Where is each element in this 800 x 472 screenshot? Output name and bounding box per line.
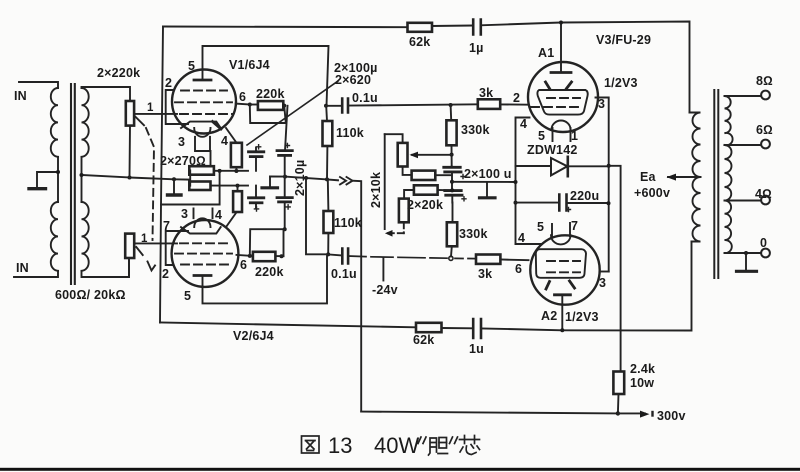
wire 330k upper stubs <box>451 105 452 167</box>
junction A2 plate / bottom rail <box>560 328 564 332</box>
wire tap 8ohm <box>725 95 762 97</box>
junction bias R2 top <box>236 184 240 188</box>
capacitor 0.1u lower <box>342 249 348 264</box>
tube V2 cathode <box>181 227 221 233</box>
wire 20k vertical bottom dashes <box>403 222 405 233</box>
caption close quote <box>450 437 458 444</box>
resistor 3k upper <box>478 99 500 109</box>
junction left rail / bias mid <box>514 180 518 184</box>
junction +300v node <box>616 411 620 415</box>
wire A1 pin4 to left rail <box>516 118 530 245</box>
svg-text:330k: 330k <box>461 123 490 137</box>
svg-text:40W: 40W <box>374 433 419 458</box>
svg-text:2.4k: 2.4k <box>630 362 655 376</box>
capacitor 2x100u/2x620 C-c upper <box>277 149 292 152</box>
resistor 2.4k 10w (vertical) <box>613 372 624 395</box>
tube V1 plate bar pin5 <box>194 79 211 82</box>
wire bias V1 bottom stub <box>235 167 237 171</box>
resistor 3k lower <box>476 255 500 264</box>
tube A2 cathode dome <box>551 235 571 244</box>
tube A1 grid boat <box>537 90 587 115</box>
svg-text:110k: 110k <box>336 126 364 140</box>
tube A2 boat dashes <box>547 260 580 262</box>
svg-text:600Ω/ 20kΩ: 600Ω/ 20kΩ <box>55 288 126 302</box>
svg-text:1/2V3: 1/2V3 <box>565 310 599 324</box>
junction 220k upper left <box>248 103 252 107</box>
svg-text:6: 6 <box>515 262 522 276</box>
wire 220k upper left stub <box>250 104 258 106</box>
ground input primary centre <box>37 172 58 187</box>
transformer T2 secondary section 1 <box>725 96 733 145</box>
wire splitter input <box>270 177 338 181</box>
annotation diagonal 2x620 pointer <box>247 81 338 145</box>
wire pot R1 wiper to V1 grid <box>134 113 177 115</box>
junction plate node V1 <box>324 104 328 108</box>
resistor 2x10k (vertical) <box>398 143 408 167</box>
wire 110k lower stubs <box>327 179 330 254</box>
ground T (bias mid) <box>486 182 488 197</box>
capacitor 220u <box>516 202 609 204</box>
tube A1 plate bar <box>551 71 571 74</box>
resistor 110k upper (vertical) <box>323 121 333 146</box>
wire tap 0 <box>725 252 762 254</box>
svg-text:4: 4 <box>518 231 525 245</box>
capacitor 2x10u C-a (V1 cathode) <box>249 150 264 153</box>
junction left rail / 220u <box>514 201 518 205</box>
wire 0.1u lower to 3k lower (broken scan) <box>348 256 476 259</box>
junction 20k-2 right <box>450 188 454 192</box>
wire secondary centre segment <box>81 157 83 202</box>
wire screen U-loop lower <box>250 229 285 256</box>
zener ZDW142 <box>516 165 609 167</box>
caption open quote <box>418 437 426 444</box>
tube V2 cathode dome <box>194 218 210 227</box>
wire plate-follower vertical (x306) <box>306 178 328 254</box>
svg-text:220k: 220k <box>256 87 285 101</box>
wire A2 pin4 to left rail <box>516 243 542 245</box>
svg-text:1: 1 <box>147 102 154 114</box>
svg-text:330k: 330k <box>459 227 488 241</box>
tube A1 beam tabs <box>546 82 572 89</box>
tube V1 cathode <box>181 122 221 128</box>
svg-text:5: 5 <box>538 129 545 143</box>
svg-text:3: 3 <box>178 135 185 149</box>
tube V2 pin2 bracket <box>166 231 188 265</box>
junction cathode rail ground tap <box>172 177 176 181</box>
svg-text:1: 1 <box>571 129 578 143</box>
resistor 2x20k first (horizontal) <box>412 171 436 180</box>
wire 20k-2 left to 20k vertical <box>404 190 414 199</box>
wire A2 pin3 to screen rail <box>600 271 609 273</box>
ground T small (between caps) <box>269 177 271 188</box>
tube V2 grid dashes <box>180 242 232 244</box>
svg-text:220u: 220u <box>570 189 599 203</box>
wire V2 pin5 to plate node <box>203 256 328 303</box>
gang arrowhead into R2 <box>148 262 156 271</box>
transformer T1 primary winding lower <box>51 202 58 271</box>
wire pot R2 bottom <box>128 258 130 277</box>
wire cathode node V1 <box>214 170 248 172</box>
wire 3k lower to A2 grid <box>500 259 528 262</box>
wire 2x10k bottom to 20k-1 <box>403 167 412 175</box>
junction pot lower top <box>128 176 132 180</box>
junction plate-follower vertical <box>304 176 308 180</box>
gang arrowhead into 2x10k rail <box>385 230 393 237</box>
svg-text:4: 4 <box>215 208 222 222</box>
junction screen rail / 220u <box>607 201 611 205</box>
resistor 330k lower (vertical) <box>447 222 457 246</box>
svg-text:A1: A1 <box>538 46 554 60</box>
wire common rail y177 <box>82 175 191 180</box>
svg-text:IN: IN <box>14 89 27 103</box>
wire 220k lower left stub <box>250 255 253 257</box>
svg-text:110k: 110k <box>334 216 362 230</box>
wire bottom feedback run <box>160 242 692 331</box>
junction A1 plate / top rail <box>559 21 563 25</box>
wire chevron to splitter drop <box>353 181 362 412</box>
wire 270s left tie <box>189 170 191 185</box>
svg-text:220k: 220k <box>255 265 284 279</box>
wire pot R2 wiper to V2 grid <box>135 242 177 244</box>
transformer T2 secondary section 2 <box>725 145 732 201</box>
ground 0 tap <box>745 253 747 271</box>
wire 2.4k bottom stub <box>617 394 620 413</box>
junction 330k bottom / wiper <box>450 153 454 157</box>
wire A2 plate to bottom rail <box>561 295 563 331</box>
wire bias mid rail to pin4 rail <box>452 181 516 183</box>
svg-text:2×100 u: 2×100 u <box>464 167 512 181</box>
wire primary centre segment <box>57 157 59 202</box>
wire zener node to 2.4k drop <box>609 166 621 372</box>
svg-text:3: 3 <box>599 276 606 290</box>
resistor 2x20k second (horizontal) <box>414 185 438 194</box>
wire bias V2 top stub <box>237 186 239 192</box>
resistor 62k upper <box>408 23 433 32</box>
svg-text:10w: 10w <box>630 376 654 390</box>
junction cathode feedback tie <box>218 169 222 173</box>
svg-text:3: 3 <box>181 207 188 221</box>
svg-text:2×620: 2×620 <box>335 73 371 87</box>
resistor 270 upper <box>189 166 214 175</box>
svg-text:5: 5 <box>537 220 544 234</box>
tube V1 pin2 bracket <box>166 90 188 124</box>
resistor bias V1 (vertical) <box>231 143 242 167</box>
svg-text:5: 5 <box>184 289 191 303</box>
tube V1 base leads pins 3,4 <box>195 137 211 166</box>
transformer T1 secondary winding upper <box>82 88 89 157</box>
capacitor 0.1u upper <box>342 99 348 113</box>
wire 110k upper stubs <box>326 106 327 180</box>
wire V2 pin6 exit <box>237 254 250 257</box>
svg-text:6Ω: 6Ω <box>756 123 773 137</box>
svg-text:0.1u: 0.1u <box>352 91 378 105</box>
tube V1 6J4 envelope <box>172 70 236 134</box>
caption character xin (core) <box>460 436 480 455</box>
wire 2x10k top feed <box>385 134 403 143</box>
gang dashed link R1-R2 <box>146 128 154 240</box>
svg-text:3k: 3k <box>478 267 492 281</box>
plus mark 220u <box>567 208 571 212</box>
dot before 300v <box>651 412 653 416</box>
wire V1 pin5 to plate node <box>203 46 329 106</box>
tube V2 pin4 lead to bias resistor <box>226 212 236 227</box>
wire Ea centre tap arrow <box>668 176 696 178</box>
plus mark C-b <box>254 207 258 211</box>
svg-text:A2: A2 <box>541 309 557 323</box>
svg-text:6: 6 <box>239 90 246 104</box>
plus marks 2x100u <box>461 175 466 201</box>
tube V1 beam tab <box>213 122 222 130</box>
junction secondary centre <box>80 173 84 177</box>
svg-text:IN: IN <box>16 261 29 275</box>
wire secondary bottom to pot R2 <box>82 258 130 277</box>
ground cathode rail <box>173 179 175 194</box>
junction 110k bottom <box>325 177 329 181</box>
plus mark C-d <box>286 205 290 209</box>
svg-text:62k: 62k <box>409 35 430 49</box>
wire A1 pin3 to screen rail <box>596 98 609 272</box>
junction plate node V2 <box>326 252 330 256</box>
tube A1 envelope <box>528 62 598 132</box>
tube V1 grid dashes <box>181 90 227 92</box>
wire top feedback run <box>163 22 690 113</box>
wire 20k-2 right to cap node <box>438 189 453 191</box>
tube V2 plate bar pin5 <box>194 274 211 277</box>
capacitor 2x100u lower plates <box>445 189 461 192</box>
capacitor 2x100u/2x620 C-d lower <box>277 196 292 199</box>
svg-text:2: 2 <box>162 267 169 281</box>
wire feedback rail left vertical <box>160 27 163 323</box>
transformer T2 primary lower <box>692 177 701 242</box>
wire 0.1u to 3k upper <box>348 104 478 105</box>
svg-text:13: 13 <box>328 433 352 458</box>
svg-text:3k: 3k <box>479 86 493 100</box>
wire 3k upper to A1 grid <box>500 103 528 105</box>
resistor 62k lower <box>416 323 442 332</box>
svg-text:Ea: Ea <box>640 170 657 184</box>
tube A2 envelope <box>530 235 599 304</box>
svg-text:1µ: 1µ <box>469 41 484 55</box>
junction cap chain top <box>283 175 287 179</box>
coupling chevrons <box>340 177 353 184</box>
wire tap 4ohm <box>725 200 762 202</box>
bottom rule <box>0 468 800 471</box>
caption character tu (figure) <box>302 436 320 453</box>
terminal 8ohm <box>761 91 770 100</box>
svg-text:ZDW142: ZDW142 <box>527 143 578 157</box>
wire V1 pin6 exit <box>236 103 250 106</box>
svg-text:4Ω: 4Ω <box>755 187 772 201</box>
svg-text:8Ω: 8Ω <box>756 74 773 88</box>
svg-text:6: 6 <box>240 258 247 272</box>
junction C-d bottom <box>283 227 287 231</box>
resistor 220k lower <box>253 252 276 261</box>
transformer T1 primary winding upper <box>51 88 58 157</box>
junction open circle (grid return) <box>449 256 453 260</box>
terminal 4ohm <box>761 196 770 205</box>
tube A1 boat dashes <box>547 97 580 99</box>
tube A2 pins 5,7 leads <box>552 223 570 237</box>
wire lower input lead <box>14 271 58 277</box>
capacitor 1u upper <box>473 20 481 35</box>
plus mark C-c <box>285 143 289 147</box>
svg-text:5: 5 <box>188 59 195 73</box>
supply stub -24v <box>382 258 384 281</box>
svg-text:7: 7 <box>163 219 170 233</box>
resistor 110k lower (vertical) <box>324 211 334 233</box>
capacitor 2x100u upper plates <box>444 166 460 169</box>
svg-text:0: 0 <box>760 236 767 250</box>
capacitor 2x10u C-b (V2 cathode) <box>249 196 264 199</box>
wiper arrow 2x10k <box>412 154 452 156</box>
tube A2 plate bar <box>555 293 571 296</box>
transformer T2 core <box>714 90 718 278</box>
junction primary centre tap <box>56 170 60 174</box>
wire splitter bottom run to +300v node <box>361 412 618 414</box>
wire 220k lower right stub <box>275 255 283 257</box>
wire 2x100u stack stubs <box>451 167 454 223</box>
terminal 0 <box>761 249 770 258</box>
caption character dan (gall) <box>429 438 448 456</box>
wire +300v arrow <box>618 412 645 414</box>
tube A1 cathode dome <box>552 121 571 130</box>
svg-text:4: 4 <box>520 117 527 131</box>
wire secondary top to pot R1 <box>82 87 131 101</box>
wire 330k lower bottom stub <box>450 246 453 256</box>
tube V2 top leads pins 3,4 <box>194 209 213 219</box>
wire upper input lead <box>19 82 58 88</box>
resistor 270 lower <box>189 182 210 191</box>
transformer T1 secondary winding lower <box>82 202 89 271</box>
tube A2 grid boat <box>536 249 586 278</box>
terminal 6ohm <box>761 140 770 149</box>
transformer T2 secondary section 3 <box>725 201 732 254</box>
wire feedback tie to rail <box>161 171 220 205</box>
svg-text:1: 1 <box>141 233 148 245</box>
svg-text:2×220k: 2×220k <box>97 66 140 80</box>
wire plate node V2 to 0.1u <box>328 254 342 255</box>
svg-text:V2/6J4: V2/6J4 <box>233 329 274 343</box>
svg-text:+600v: +600v <box>634 186 670 200</box>
junction 220k lower right <box>280 254 284 258</box>
wiper arrow R1 <box>135 116 144 125</box>
plus mark C-a <box>257 145 261 149</box>
tube V1 cathode dome <box>194 128 210 137</box>
svg-text:2×20k: 2×20k <box>407 198 443 212</box>
junction 330k top <box>449 103 453 107</box>
junction 220k upper right <box>282 104 286 108</box>
resistor 220k upper <box>258 101 283 110</box>
junction bias R bottom <box>234 169 238 173</box>
resistor 330k upper (vertical) <box>446 120 456 145</box>
junction 2x100u midpoint <box>450 180 454 184</box>
wire screen U-loop upper <box>250 105 286 124</box>
svg-text:62k: 62k <box>413 333 434 347</box>
resistor 2x20k (vertical) <box>399 199 409 223</box>
svg-text:300v: 300v <box>657 409 686 423</box>
junction 220k lower left <box>248 254 252 258</box>
svg-text:3: 3 <box>598 97 605 111</box>
tube V2 6J4 envelope <box>172 220 239 287</box>
transformer T2 primary upper <box>690 113 701 178</box>
wire pot R1 bottom to rail <box>129 126 132 178</box>
wire 20k-1 right to cap node <box>435 174 452 176</box>
svg-text:0.1u: 0.1u <box>331 267 357 281</box>
svg-text:7: 7 <box>571 219 578 233</box>
capacitor 1u lower <box>473 319 481 338</box>
svg-text:2: 2 <box>513 91 520 105</box>
wire plate node to 0.1u <box>326 105 342 107</box>
svg-text:V1/6J4: V1/6J4 <box>229 58 270 72</box>
potentiometer R1 2x220k upper <box>126 101 134 126</box>
svg-text:4: 4 <box>221 134 228 148</box>
wire A1 plate to top rail <box>560 23 562 73</box>
wire 2x10k rail <box>384 134 386 229</box>
tube A1 pins 5,1 leads <box>553 128 571 141</box>
svg-text:V3/FU-29: V3/FU-29 <box>596 33 651 47</box>
potentiometer R2 2x220k lower <box>125 234 134 258</box>
tube A2 beam tabs <box>546 281 575 289</box>
tube V1 pin4 lead to bias resistor <box>226 128 236 143</box>
svg-text:2×10k: 2×10k <box>369 172 383 208</box>
junction 0 tap ground <box>744 251 748 255</box>
resistor bias V2 (vertical) <box>233 191 242 212</box>
svg-text:1u: 1u <box>469 342 484 356</box>
svg-text:1/2V3: 1/2V3 <box>604 76 638 90</box>
junction screen rail / zener <box>607 164 611 168</box>
wiper arrow R2 <box>136 247 142 255</box>
svg-text:2: 2 <box>165 76 172 90</box>
transformer T1 core <box>71 84 75 284</box>
wire cathode node V2 <box>211 185 249 187</box>
svg-text:-24v: -24v <box>372 283 398 297</box>
wire tap 6ohm <box>725 144 762 146</box>
